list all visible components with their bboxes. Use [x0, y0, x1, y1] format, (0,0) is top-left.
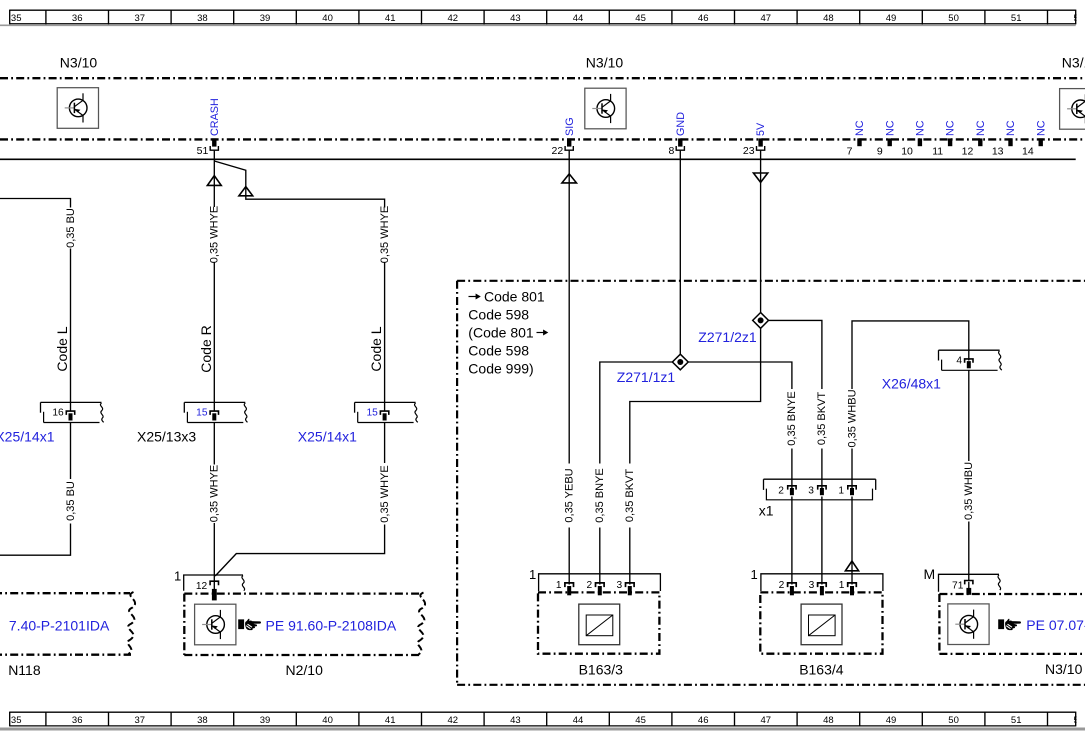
svg-text:50: 50: [948, 715, 959, 726]
svg-text:3: 3: [617, 580, 623, 591]
sensor B163/3 box: [538, 592, 659, 653]
svg-text:NC: NC: [884, 120, 896, 136]
svg-text:4: 4: [956, 355, 962, 366]
wire 0,35 YEBU: [568, 182, 570, 584]
control unit icon U-left: [57, 88, 98, 129]
shield/ground rail solid line: [0, 158, 1076, 160]
svg-text:46: 46: [698, 715, 709, 726]
svg-text:SIG: SIG: [564, 117, 576, 136]
svg-text:40: 40: [322, 13, 333, 24]
svg-text:Code 598: Code 598: [468, 342, 529, 358]
svg-text:PE 91.60-P-2108IDA: PE 91.60-P-2108IDA: [266, 618, 397, 634]
control unit icon N3/10 bottom: [948, 604, 989, 645]
svg-text:5V: 5V: [755, 122, 767, 136]
svg-text:X25/14x1: X25/14x1: [298, 429, 357, 445]
svg-text:X25/13x3: X25/13x3: [137, 429, 196, 445]
wire from pin 51 down: [213, 151, 215, 187]
connector bracket above B163/4: [751, 567, 883, 596]
connector X25/14x1 (right) pin 15: [355, 402, 418, 422]
control unit N3/10 top border (dash-dot): [0, 77, 1085, 79]
svg-text:51: 51: [1011, 715, 1022, 726]
svg-text:38: 38: [197, 13, 208, 24]
svg-text:39: 39: [260, 13, 271, 24]
svg-text:12: 12: [962, 145, 974, 157]
svg-text:B163/3: B163/3: [579, 662, 624, 678]
wire from pin 8 (GND) to Z271/1z1: [679, 151, 681, 355]
svg-text:B163/4: B163/4: [799, 662, 844, 678]
ECU NC pins 7,9,10,11,12,13,14: [847, 120, 1048, 157]
svg-text:N3/10: N3/10: [586, 54, 624, 70]
control unit N2/10 box: [184, 593, 425, 656]
svg-text:M: M: [924, 566, 936, 582]
svg-text:0,35 BKVT: 0,35 BKVT: [816, 392, 828, 445]
code option text block: [468, 288, 548, 376]
wire 0,35 BU from left edge: [0, 199, 71, 411]
pointing hand icon N2/10: [238, 619, 261, 630]
svg-text:NC: NC: [915, 120, 927, 136]
svg-text:42: 42: [448, 13, 459, 24]
svg-text:9: 9: [877, 145, 883, 157]
svg-text:15: 15: [366, 408, 378, 419]
connector bracket N2/10 pin 12: [174, 569, 245, 601]
splice Z271/2z1: [753, 313, 769, 329]
connector bracket above B163/3: [529, 567, 660, 596]
svg-text:Z271/2z1: Z271/2z1: [698, 329, 757, 345]
svg-text:1: 1: [556, 580, 562, 591]
control unit icon U-center: [585, 88, 626, 129]
svg-text:12: 12: [196, 581, 208, 592]
svg-text:NC: NC: [945, 120, 957, 136]
svg-text:0,35 BNYE: 0,35 BNYE: [594, 468, 606, 522]
svg-text:CRASH: CRASH: [209, 98, 221, 136]
svg-text:0,35 YEBU: 0,35 YEBU: [564, 468, 576, 522]
svg-text:23: 23: [743, 145, 755, 157]
branch wire from pin 51 to Code L leg: [214, 161, 384, 411]
svg-text:(Code 801: (Code 801: [468, 324, 534, 340]
connector X26/48x1 pin 4: [939, 350, 1002, 370]
wire 0,35 BU lower: [0, 422, 71, 555]
svg-text:x1: x1: [759, 503, 774, 519]
svg-text:2: 2: [587, 580, 593, 591]
svg-text:NC: NC: [975, 120, 987, 136]
svg-text:10: 10: [901, 145, 913, 157]
svg-text:0,35 BNYE: 0,35 BNYE: [786, 391, 798, 445]
svg-text:Code L: Code L: [368, 326, 384, 371]
svg-text:1: 1: [751, 567, 758, 582]
svg-text:47: 47: [761, 13, 772, 24]
wire Z271/2z1 right branch 0,35 BKVT to x1 pin 3: [769, 320, 822, 488]
svg-text:45: 45: [635, 13, 646, 24]
wire from pin 23 (5V): [760, 151, 762, 183]
wire 0,35 WHYE lower (Code L) joining pin 12: [215, 422, 384, 576]
svg-text:43: 43: [510, 715, 521, 726]
svg-text:50: 50: [948, 13, 959, 24]
svg-text:8: 8: [668, 145, 674, 157]
wire 0,35 WHYE lower (Code R) to N2/10 pin 12: [213, 422, 215, 582]
ECU pin 23 (5V): [743, 122, 767, 157]
svg-text:NC: NC: [1035, 120, 1047, 136]
svg-text:NC: NC: [1005, 120, 1017, 136]
svg-text:0,35 WHYE: 0,35 WHYE: [379, 206, 391, 263]
svg-text:36: 36: [72, 13, 83, 24]
wires x1 to B163/4 pins: [792, 497, 852, 585]
svg-text:Code 598: Code 598: [468, 306, 529, 322]
svg-text:0,35 BU: 0,35 BU: [65, 481, 77, 521]
intermediate connector x1: [764, 479, 876, 500]
svg-text:45: 45: [635, 715, 646, 726]
connector X25/14x1 pin 16: [41, 402, 104, 422]
svg-text:46: 46: [698, 13, 709, 24]
svg-text:35: 35: [11, 13, 22, 24]
ECU pin 22 (SIG): [552, 117, 576, 157]
control unit icon U-right (clipped): [1060, 89, 1085, 130]
svg-text:Code 801: Code 801: [484, 288, 545, 304]
ECU pin 51 (CRASH): [197, 98, 221, 157]
svg-text:44: 44: [573, 715, 584, 726]
svg-text:N3/10: N3/10: [1045, 661, 1083, 677]
direction arrow on SIG wire: [562, 174, 577, 183]
sensor B163/4 box: [760, 592, 882, 653]
direction arrow on CRASH wire (right branch): [239, 187, 253, 196]
svg-text:7: 7: [847, 145, 853, 157]
svg-text:35: 35: [11, 715, 22, 726]
svg-text:0,35 BKVT: 0,35 BKVT: [624, 469, 636, 522]
svg-text:14: 14: [1022, 145, 1034, 157]
svg-text:36: 36: [72, 715, 83, 726]
ECU pin 8 (GND): [668, 112, 686, 157]
wire Z271/1z1 left branch 0,35 BNYE to B163/3 pin 2: [600, 362, 673, 585]
svg-text:3: 3: [809, 580, 815, 591]
svg-text:43: 43: [510, 13, 521, 24]
svg-text:Z271/1z1: Z271/1z1: [617, 369, 676, 385]
svg-text:X26/48x1: X26/48x1: [882, 376, 941, 392]
pointing hand icon N3/10 bottom: [998, 619, 1021, 630]
svg-text:42: 42: [448, 715, 459, 726]
svg-text:37: 37: [135, 13, 146, 24]
svg-text:49: 49: [886, 13, 897, 24]
svg-text:N3/10: N3/10: [60, 54, 98, 70]
svg-text:Code 999): Code 999): [468, 360, 533, 376]
svg-text:N118: N118: [8, 662, 41, 678]
svg-text:51: 51: [197, 145, 209, 157]
direction arrow on CRASH wire (left branch): [207, 176, 221, 186]
svg-text:51: 51: [1011, 13, 1022, 24]
svg-text:2: 2: [778, 485, 784, 496]
direction arrow on WHBU wire at B163/4: [845, 561, 858, 571]
wire 0,35 WHBU from X26/48x1 down to motor pin 71: [968, 370, 970, 580]
direction arrow on 5V wire (down): [753, 173, 767, 182]
svg-text:15: 15: [196, 408, 208, 419]
svg-text:2: 2: [779, 580, 785, 591]
svg-text:0,35 WHYE: 0,35 WHYE: [209, 465, 221, 522]
wire from pin 22 (SIG): [568, 151, 570, 183]
wire Z271/2z1 down branch 0,35 BKVT to B163/3 pin 3: [630, 329, 761, 585]
svg-text:71: 71: [952, 580, 964, 591]
svg-text:Code R: Code R: [198, 325, 214, 372]
svg-text:13: 13: [992, 145, 1004, 157]
svg-text:11: 11: [932, 145, 943, 157]
splice Z271/1z1: [672, 354, 688, 370]
svg-text:Code L: Code L: [54, 326, 70, 371]
top ruler grid: [0, 5, 1085, 25]
svg-text:NC: NC: [854, 120, 866, 136]
control unit N3/10 bottom border (dash-dot): [0, 138, 1085, 140]
wire Z271/1z1 right branch 0,35 BNYE to x1 pin 2: [688, 362, 792, 489]
connector X25/13x3 pin 15: [184, 402, 247, 422]
svg-text:22: 22: [552, 145, 564, 157]
svg-text:1: 1: [529, 567, 536, 582]
control unit N3/10 bottom-right box (clipped): [939, 594, 1085, 654]
svg-text:1: 1: [174, 569, 181, 584]
svg-text:7.40-P-2101IDA: 7.40-P-2101IDA: [9, 618, 110, 634]
svg-text:N3/10: N3/10: [1062, 54, 1085, 70]
svg-text:48: 48: [823, 13, 834, 24]
svg-text:47: 47: [761, 715, 772, 726]
svg-text:GND: GND: [675, 112, 687, 136]
bottom ruler grid: [0, 707, 1085, 729]
svg-text:41: 41: [385, 715, 396, 726]
svg-text:1: 1: [839, 580, 845, 591]
svg-text:3: 3: [808, 485, 814, 496]
svg-text:40: 40: [322, 715, 333, 726]
connector bracket pin 71: [939, 574, 1001, 595]
svg-text:PE 07.07-P-3500GZ: PE 07.07-P-3500GZ: [1026, 617, 1085, 633]
wire 0,35 WHBU from X26/48x1 pin 4 to x1 pin 1: [852, 321, 969, 489]
svg-text:0,35 WHBU: 0,35 WHBU: [963, 462, 975, 520]
control unit N118 box (clipped left): [0, 592, 135, 655]
svg-text:48: 48: [823, 715, 834, 726]
svg-text:49: 49: [886, 715, 897, 726]
wire 0,35 WHYE Code R: [213, 185, 215, 411]
svg-text:X25/14x1: X25/14x1: [0, 429, 55, 445]
svg-text:41: 41: [385, 13, 396, 24]
svg-text:0,35 WHYE: 0,35 WHYE: [379, 465, 391, 522]
svg-text:0,35 BU: 0,35 BU: [65, 208, 77, 248]
svg-text:0,35 WHBU: 0,35 WHBU: [846, 389, 858, 447]
svg-text:44: 44: [573, 13, 584, 24]
svg-text:1: 1: [838, 485, 844, 496]
svg-text:0,35 WHYE: 0,35 WHYE: [209, 206, 221, 263]
svg-text:N2/10: N2/10: [286, 662, 324, 678]
svg-text:16: 16: [52, 408, 64, 419]
option box Code 801/598/999 (dash-dot): [457, 281, 1085, 685]
svg-text:37: 37: [135, 715, 146, 726]
control unit icon N2/10: [195, 604, 236, 645]
svg-text:39: 39: [260, 715, 271, 726]
svg-text:38: 38: [197, 715, 208, 726]
